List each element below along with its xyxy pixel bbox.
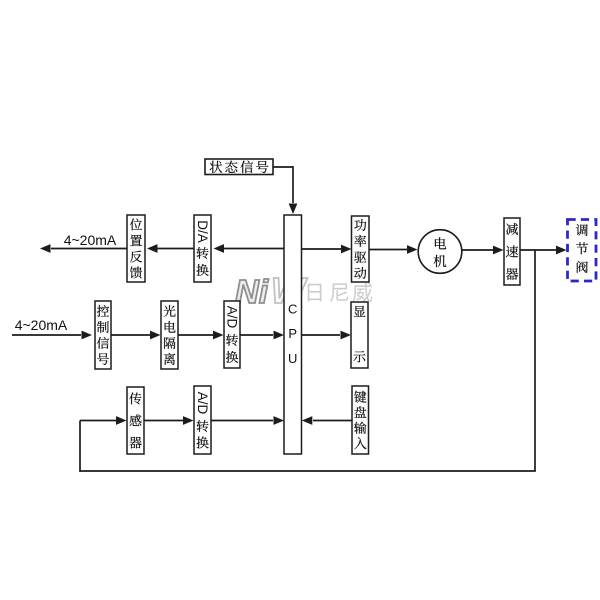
arrow 功率驱动 to motor bbox=[369, 245, 418, 254]
CPU tall box bbox=[284, 215, 302, 454]
dashed box 调节阀 (regulating valve) bbox=[568, 220, 597, 282]
svg-text:U: U bbox=[288, 351, 297, 366]
box A/D转换 row3 (A/D converter) bbox=[194, 386, 211, 454]
arrow CPU to 功率驱动 bbox=[302, 245, 352, 254]
svg-text:C: C bbox=[288, 302, 297, 317]
box D/A转换 (D/A converter) bbox=[194, 215, 211, 282]
wire from 状态信号 to CPU top bbox=[273, 166, 297, 214]
arrow CPU to D/A转换 bbox=[214, 244, 285, 253]
arrow A/D转换 row3 to CPU bbox=[211, 416, 284, 425]
box 显示 (display) bbox=[351, 302, 368, 368]
arrow motor to 减速器 bbox=[462, 246, 504, 255]
svg-text:D/A: D/A bbox=[195, 220, 210, 243]
svg-text:A/D: A/D bbox=[195, 392, 210, 415]
svg-text:A/D: A/D bbox=[225, 306, 240, 329]
arrow A/D转换 to CPU bbox=[240, 331, 284, 340]
box 光电隔离 (opto isolation) bbox=[161, 301, 178, 369]
wire 减速器 to valve with junction bbox=[520, 246, 567, 255]
arrow 键盘输入 to CPU bbox=[302, 416, 352, 425]
box A/D转换 row2 (A/D converter) bbox=[224, 301, 240, 368]
arrow into 控制信号 bbox=[12, 331, 92, 340]
box 位置反馈 (position feedback) bbox=[127, 215, 145, 282]
watermark NiW logo text bbox=[235, 270, 308, 311]
box 减速器 (reducer) bbox=[504, 218, 520, 285]
svg-text:4~20mA: 4~20mA bbox=[15, 317, 68, 333]
box 传感器 (sensor) bbox=[127, 387, 144, 454]
box 控制信号 (control signal) bbox=[95, 301, 111, 369]
arrow 光电隔离 to A/D转换 bbox=[178, 331, 224, 340]
svg-text:4~20mA: 4~20mA bbox=[64, 232, 117, 248]
svg-text:P: P bbox=[288, 326, 297, 341]
arrow 控制信号 to 光电隔离 bbox=[111, 331, 161, 340]
box 功率驱动 (power drive) bbox=[352, 216, 370, 282]
wire/arrow out left from 位置反馈 bbox=[40, 244, 127, 253]
box 键盘输入 (keyboard input) bbox=[352, 386, 369, 454]
box 状态信号 (status signal) bbox=[205, 159, 273, 175]
feedback wire: junction down, across bottom, up to 传感器 bbox=[79, 250, 536, 472]
watermark 日尼威 characters bbox=[308, 282, 373, 301]
arrow 传感器 to A/D转换 row3 bbox=[144, 416, 194, 425]
arrow CPU to 显示 bbox=[302, 331, 352, 340]
motor circle 电机 bbox=[418, 230, 462, 274]
arrow D/A转换 to 位置反馈 bbox=[147, 244, 194, 253]
